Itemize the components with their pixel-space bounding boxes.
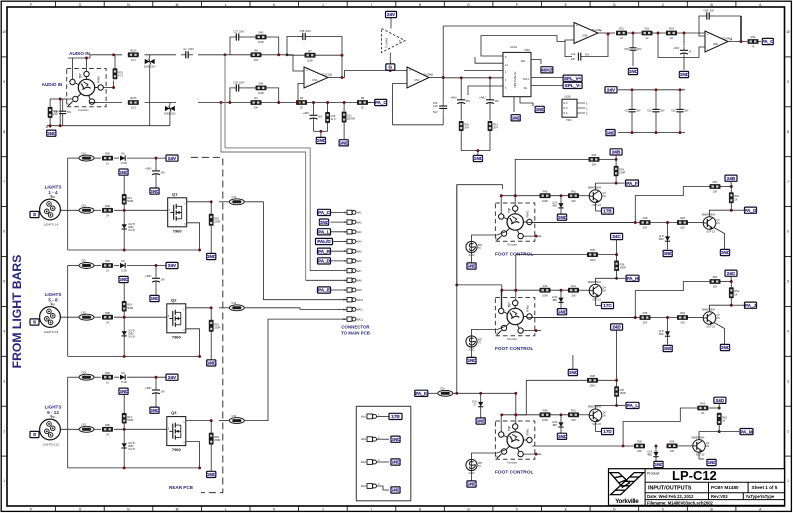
svg-text:10V B: 10V B: [128, 448, 135, 451]
svg-text:INPUT/OUTPUTS: INPUT/OUTPUTS: [648, 486, 692, 492]
wire 24C feed to junction: [616, 239, 618, 254]
resistor R104 (audio top): [128, 48, 139, 62]
svg-text:15K: 15K: [713, 190, 718, 194]
svg-text:1K: 1K: [701, 411, 704, 415]
wire transistor q3f emitter: [595, 422, 597, 432]
net label GND (U10A pin b): [535, 106, 546, 112]
svg-text:SOT-23: SOT-23: [706, 231, 715, 234]
wire bias loop (foot1 right): [635, 187, 709, 223]
wire right collector to net label: [731, 304, 744, 306]
svg-text:1: 1: [3, 479, 5, 483]
svg-text:+48U: +48U: [450, 96, 456, 100]
svg-text:C68: C68: [704, 8, 709, 12]
wire lower chain rail: [230, 102, 296, 104]
svg-text:1A: 1A: [505, 64, 508, 67]
svg-text:10: 10: [786, 30, 790, 34]
net label emitter (foot3): [602, 428, 614, 434]
resistor R98 (input shunt): [48, 107, 59, 118]
wire stub to feed-through A: [224, 55, 226, 148]
wire Q3 drain out: [186, 420, 211, 422]
svg-text:L: L: [225, 508, 227, 512]
svg-text:S: S: [33, 320, 36, 325]
capacitor C1 (audio top series): [181, 47, 194, 58]
svg-text:22K: 22K: [643, 226, 648, 230]
svg-text:22K: 22K: [637, 449, 642, 453]
svg-text:N.C.: N.C.: [564, 102, 569, 105]
wire jack2 left pin drop: [500, 291, 502, 309]
wire lights3 bottom row: [68, 467, 200, 469]
svg-text:500R: 500R: [127, 306, 133, 310]
svg-text:2: 2: [3, 429, 5, 433]
svg-text:26V: 26V: [161, 390, 166, 393]
ground net label GND (lower chain): [316, 137, 327, 143]
svg-text:150R: 150R: [620, 391, 626, 395]
wire long vertical feed (left of foot sections): [456, 185, 458, 394]
svg-text:10: 10: [106, 161, 109, 165]
svg-text:+48U: +48U: [479, 96, 485, 100]
net label above right chain foot3: [714, 397, 726, 403]
svg-text:6: 6: [586, 102, 588, 105]
junction zener node lower chain: [343, 101, 346, 104]
svg-text:250R: 250R: [214, 438, 220, 442]
zener D2g (right): [667, 318, 669, 332]
junction foot2 zener: [560, 289, 563, 292]
Yorkville logo: [610, 473, 644, 495]
svg-text:50V: 50V: [318, 116, 323, 119]
IC U10B box (unused): [562, 95, 588, 123]
svg-text:MMBT3904: MMBT3904: [588, 187, 602, 190]
output connector box (bottom middle): [356, 406, 411, 501]
svg-text:50V: 50V: [495, 100, 500, 103]
svg-text:24C: 24C: [727, 271, 736, 276]
svg-text:R22: R22: [645, 27, 650, 31]
TVS diode D80: [169, 103, 171, 106]
svg-text:C6: C6: [625, 109, 629, 112]
net label PA_L2 (foot3): [617, 404, 625, 406]
svg-text:MMBT3904: MMBT3904: [702, 213, 716, 216]
svg-text:10K2: 10K2: [589, 384, 596, 388]
connector pin 5 (main PCB): [344, 249, 362, 253]
net label 24D feed (foot3): [611, 324, 623, 330]
svg-text:R90: R90: [751, 35, 756, 39]
svg-text:WA1: WA1: [357, 212, 363, 215]
svg-text:R9: R9: [254, 96, 258, 100]
net label SPL_V+ (a): [563, 75, 582, 81]
svg-text:2N: 2N: [603, 195, 606, 198]
svg-text:-: -: [707, 47, 708, 51]
svg-text:R41: R41: [571, 284, 576, 288]
ferrite L1b (middle row): [79, 204, 94, 214]
svg-text:4: 4: [3, 330, 5, 334]
resistor R44 (parallel branch): [256, 82, 267, 96]
resistor R8 (upper chain): [251, 48, 262, 62]
wire U5A output: [328, 77, 345, 79]
svg-text:2: 2: [378, 435, 380, 439]
resistor R36 vertical (feed2): [616, 255, 618, 261]
capacitor C4b decoupling: [489, 78, 491, 96]
svg-text:10: 10: [106, 380, 109, 384]
capacitor C68 (U5D feedback): [702, 8, 715, 19]
wire foot2 base row: [502, 289, 540, 291]
svg-text:R40: R40: [543, 189, 548, 193]
svg-text:TC: TC: [478, 342, 481, 345]
svg-text:GND: GND: [628, 69, 639, 74]
svg-text:U10B: U10B: [564, 95, 571, 99]
wire lights2 bottom row: [68, 355, 200, 357]
svg-text:2K: 2K: [361, 106, 364, 110]
svg-text:7: 7: [787, 180, 789, 184]
svg-text:22: 22: [620, 36, 623, 40]
zener D11 (lower chain bias): [343, 103, 345, 112]
svg-text:C63: C63: [81, 370, 86, 374]
svg-text:PA_O: PA_O: [762, 39, 775, 44]
svg-text:R104: R104: [130, 48, 137, 52]
svg-text:14: 14: [730, 39, 733, 42]
svg-text:J: J: [322, 508, 324, 512]
svg-text:MMBT3904: MMBT3904: [692, 436, 706, 439]
net label 40HZ: [541, 67, 553, 73]
svg-text:7960: 7960: [173, 228, 183, 233]
svg-text:Wa1: Wa1: [361, 415, 367, 418]
svg-text:TC: TC: [478, 247, 481, 250]
svg-text:U5D: U5D: [713, 42, 718, 46]
svg-text:TIP: TIP: [507, 207, 511, 213]
wire audio common bottom: [47, 125, 170, 127]
svg-text:RING: RING: [97, 76, 101, 83]
svg-text:8.3D: 8.3D: [121, 380, 127, 384]
ground net label GND (right zener foot1): [663, 250, 674, 256]
svg-text:GND: GND: [118, 277, 129, 282]
svg-text:WA11: WA11: [357, 309, 364, 312]
pot R51 circle (foot1): [466, 241, 483, 257]
resistor R35 (feed foot2): [587, 248, 598, 262]
net label 24B feed (foot1): [610, 149, 622, 155]
net label PA_O: [759, 41, 762, 43]
svg-text:24V: 24V: [168, 263, 177, 268]
resistor R1b (foot1 row): [568, 189, 579, 203]
junction lights3 mid: [123, 428, 126, 431]
svg-text:AUDIO IN: AUDIO IN: [69, 51, 90, 56]
zener D1z (lights1): [123, 210, 125, 224]
zener D3f (foot3): [560, 415, 562, 423]
resistor R33 (feed foot1): [589, 153, 600, 167]
svg-text:10K: 10K: [680, 321, 685, 325]
resistor R30a below C4a: [460, 106, 462, 121]
svg-text:3: 3: [3, 379, 5, 383]
ground net label GND (decouplers): [473, 155, 484, 161]
svg-text:24: 24: [106, 433, 109, 437]
svg-text:PA_D: PA_D: [318, 259, 331, 264]
pot R53 circle (foot3): [466, 459, 483, 475]
wire bottom feed to foot3: [481, 392, 516, 394]
capacitor C22 electrolytic: [155, 266, 157, 275]
svg-text:47.2: 47.2: [118, 73, 124, 77]
svg-text:WA2: WA2: [357, 221, 363, 224]
net label above R14 (lights3): [118, 388, 129, 394]
svg-text:VM2 5V6E LD: VM2 5V6E LD: [513, 71, 517, 88]
wire jack1 ring out: [532, 222, 635, 224]
resistor R1c (right row): [640, 216, 651, 230]
svg-text:F: F: [516, 3, 518, 7]
svg-text:10K: 10K: [571, 418, 576, 422]
feedback loop U5A: [287, 37, 298, 55]
IC U10A box: [503, 45, 531, 97]
junction lights3 top: [155, 376, 158, 379]
net label 24C feed (foot2): [611, 233, 623, 239]
wire jack3 ring out: [532, 445, 634, 447]
zener D1g (right): [667, 223, 669, 237]
wire jack3 left pin drop: [500, 414, 502, 432]
resistor R34 vertical (feed): [615, 159, 617, 165]
wire jack3 bottom pin stub: [524, 453, 542, 455]
ferrite L3c (drain): [219, 420, 229, 422]
connector pin W4 (output box): [361, 482, 380, 488]
resistor R37 vertical (feed3): [616, 380, 618, 386]
svg-text:R8: R8: [254, 48, 258, 52]
net label PA_K (bottom feed): [415, 390, 428, 396]
junction right zener: [666, 221, 669, 224]
svg-text:7: 7: [3, 180, 5, 184]
svg-text:24V: 24V: [607, 88, 616, 93]
svg-text:C63: C63: [81, 423, 86, 427]
svg-text:10.2: 10.2: [131, 106, 137, 110]
svg-text:-: -: [409, 83, 410, 87]
junction out chain b: [653, 32, 668, 34]
wire pot to jack sleeve (foot2): [472, 327, 506, 336]
resistor R3b (middle row): [102, 423, 113, 437]
wire collector riser (foot1 right): [710, 210, 732, 216]
svg-text:WA6: WA6: [357, 260, 363, 263]
svg-text:C84: C84: [624, 48, 629, 51]
svg-text:GND: GND: [557, 309, 568, 314]
svg-text:C61: C61: [81, 204, 86, 208]
capacitor C47 (input shunt): [54, 107, 72, 117]
svg-text:PA_C: PA_C: [318, 210, 331, 215]
svg-text:40HZ: 40HZ: [541, 68, 552, 73]
zener D30 (bottom feed): [480, 393, 482, 402]
wire pin W2 to net label: [377, 438, 390, 440]
wire Q3 source to bottom: [186, 442, 200, 468]
svg-text:GND: GND: [466, 264, 477, 269]
resistor R23 output chain: [666, 27, 677, 41]
wire TVS1 to bottom rail: [149, 65, 151, 126]
svg-text:R66: R66: [105, 371, 110, 375]
svg-text:5: 5: [3, 280, 5, 284]
svg-text:MMBT3904: MMBT3904: [588, 281, 602, 284]
wire U5B out rail riser to U5D minus: [658, 33, 705, 58]
transistor Q2g MMBT3904 (right): [702, 308, 720, 328]
wire long 24D feed vertical: [616, 330, 618, 380]
resistor R3a (foot3 row): [540, 408, 551, 422]
resistor R1a (foot1 row): [540, 189, 551, 203]
svg-text:SOT-23: SOT-23: [696, 454, 705, 457]
svg-text:R105: R105: [130, 96, 137, 100]
svg-text:2N: 2N: [706, 445, 709, 448]
net label pin 4 (PAL/D): [316, 238, 333, 244]
svg-text:GND: GND: [557, 215, 568, 220]
wire upper chain from top rail: [225, 54, 230, 56]
wire feed row foot2: [516, 254, 587, 256]
svg-text:100V: 100V: [239, 81, 245, 84]
connector pin 8 (main PCB): [344, 278, 362, 282]
svg-text:1: 1: [787, 479, 789, 483]
junction out chain a: [627, 32, 641, 34]
junction bottom feed zener: [479, 392, 482, 395]
wire into op-amp U5A inputs: [287, 55, 304, 71]
ferrite L3a (top row): [79, 370, 94, 380]
ground net label GND (C40): [679, 71, 690, 77]
wire right collector to net label: [731, 209, 744, 211]
svg-text:26V: 26V: [161, 279, 166, 282]
svg-text:+58U: +58U: [145, 167, 151, 171]
svg-text:TIP: TIP: [507, 425, 511, 431]
ground net label GND (pot foot2): [466, 357, 477, 363]
svg-text:R66: R66: [105, 152, 110, 156]
wire lights2 middle row: [61, 316, 80, 318]
wire audio bottom rail: [90, 102, 122, 104]
svg-text:GND: GND: [206, 472, 217, 477]
svg-text:GND: GND: [605, 130, 616, 135]
svg-text:WA10: WA10: [357, 299, 364, 302]
svg-text:+48U: +48U: [303, 111, 309, 115]
svg-text:150R: 150R: [620, 265, 626, 269]
net label 24V (cap bank top): [605, 87, 617, 93]
svg-text:24B: 24B: [612, 150, 621, 155]
svg-text:24D: 24D: [612, 325, 621, 330]
svg-text:20K: 20K: [254, 58, 259, 62]
svg-text:GND: GND: [511, 116, 522, 121]
net label above R14 (lights1): [118, 169, 129, 175]
net label above R14 (lights2): [118, 276, 129, 282]
wire pin8 stub: [306, 279, 347, 281]
ground net label GND (drain shunt R53): [206, 471, 217, 477]
svg-text:GND: GND: [476, 419, 487, 424]
svg-text:WA8: WA8: [357, 280, 363, 283]
resistor R2d (right row): [677, 311, 688, 325]
svg-text:24B: 24B: [727, 176, 736, 181]
svg-text:C62: C62: [81, 310, 86, 314]
svg-text:5: 5: [787, 280, 789, 284]
net label 24V above power triangle: [386, 11, 397, 17]
connector pin 6 (main PCB): [344, 259, 362, 263]
svg-text:2K: 2K: [734, 197, 737, 201]
MOSFET Q1 7960: [168, 191, 187, 233]
svg-text:GND: GND: [568, 370, 579, 375]
wire U10A DIN to net label: [531, 60, 541, 64]
svg-text:3: 3: [586, 107, 588, 110]
capacitor C84 to gnd: [632, 33, 634, 44]
svg-text:N.C.: N.C.: [564, 112, 569, 115]
svg-text:RING: RING: [525, 429, 529, 436]
resistor R2e vertical (right): [730, 282, 732, 288]
diode D2 (top row): [120, 259, 127, 272]
ground net label GND (audio input): [46, 130, 57, 136]
svg-text:R6: R6: [361, 96, 365, 100]
svg-text:R28: R28: [643, 216, 648, 220]
svg-text:50V: 50V: [67, 111, 72, 114]
svg-text:2N: 2N: [603, 414, 606, 417]
svg-text:C42: C42: [231, 301, 236, 305]
svg-text:U10A: U10A: [510, 45, 517, 49]
junction cap node: [312, 101, 315, 104]
svg-text:BZX84: BZX84: [347, 117, 355, 121]
connector pin 4 (main PCB): [344, 239, 362, 243]
svg-text:GND: GND: [720, 345, 731, 350]
connector pin W3 (output box): [361, 458, 380, 464]
zener D2f (foot2): [560, 290, 562, 298]
jack J3 foot control with dashed box: [495, 421, 535, 465]
resistor R2c (right row): [640, 311, 651, 325]
ground net label GND (drain shunt R52): [206, 360, 217, 366]
zener D3g (right foot3): [655, 446, 657, 452]
resistor R7 (U5A feedback): [305, 49, 316, 63]
svg-text:500R: 500R: [127, 199, 133, 203]
svg-text:24V: 24V: [168, 156, 177, 161]
svg-text:R40: R40: [543, 408, 548, 412]
junction bias node (foot1 right): [730, 185, 733, 188]
connector P2 light bars: [40, 303, 61, 334]
junction right zener: [666, 316, 669, 319]
wire foot2 long row to right transistor: [527, 317, 640, 319]
net label OUT (lower chain): [368, 102, 375, 104]
resistor R2h bias (right): [710, 275, 721, 289]
wire pot gnd (foot2): [471, 347, 473, 357]
resistor R3e vertical (right foot3): [717, 413, 728, 425]
junction bias node (foot2 right): [730, 280, 733, 283]
svg-text:C62: C62: [81, 259, 86, 263]
resistor R2b (middle row): [102, 311, 113, 325]
svg-text:O: O: [79, 508, 82, 512]
wire U5C output up to U5B +: [442, 26, 444, 78]
wire feed-through A to connector pin 7: [225, 148, 310, 271]
svg-text:D6: D6: [121, 259, 125, 263]
svg-text:2N: 2N: [717, 317, 720, 320]
junction audio top at x225: [224, 53, 227, 56]
wire Q3 drain to pin 12: [244, 319, 347, 421]
wire Q2 drain out: [186, 307, 211, 309]
svg-text:SOT-23: SOT-23: [706, 326, 715, 329]
svg-text:C1: C1: [183, 47, 187, 51]
svg-text:7660: 7660: [524, 48, 530, 52]
net label W2: [390, 436, 401, 442]
svg-text:R2: R2: [300, 96, 304, 100]
junction lower chain x278: [277, 101, 280, 104]
svg-text:22P: 22P: [571, 58, 576, 61]
svg-text:O: O: [79, 3, 82, 7]
svg-text:7960: 7960: [172, 334, 182, 339]
svg-text:F: F: [516, 508, 518, 512]
junction jack2 top: [514, 289, 517, 292]
svg-text:C41: C41: [231, 195, 236, 199]
svg-text:RING: RING: [525, 211, 529, 218]
svg-text:GND: GND: [679, 72, 690, 77]
svg-text:R44: R44: [259, 82, 264, 86]
U5D feedback loop top: [699, 16, 705, 36]
resistor R3f horizontal (right foot3): [697, 402, 708, 416]
svg-text:2K: 2K: [300, 106, 303, 110]
svg-text:24: 24: [689, 51, 692, 54]
svg-text:WA5: WA5: [357, 250, 363, 253]
resistor R3c (right row foot3): [634, 440, 645, 454]
wire collector q2f: [596, 278, 617, 284]
resistor R1b (middle row): [102, 204, 113, 218]
svg-text:11: 11: [343, 307, 346, 311]
pot R52 circle (foot2): [466, 336, 483, 352]
svg-text:REAR PCB: REAR PCB: [169, 485, 194, 490]
svg-text:Function: Function: [507, 461, 518, 465]
diode D1 (top row): [120, 152, 127, 165]
svg-text:U5B: U5B: [582, 33, 587, 37]
